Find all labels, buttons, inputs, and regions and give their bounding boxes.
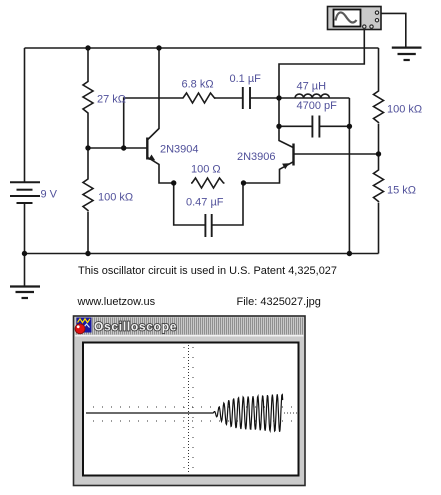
wire 6.8k to 0.1uF: [214, 97, 243, 99]
svg-text:27 kΩ: 27 kΩ: [97, 94, 126, 106]
svg-text:15 kΩ: 15 kΩ: [387, 185, 416, 197]
capacitor C 0.1uF: [242, 87, 244, 109]
wire inductor right: [330, 97, 350, 99]
resistor R 100ohm: [191, 178, 225, 188]
svg-text:2N3904: 2N3904: [160, 144, 199, 156]
oscilloscope window: [74, 316, 306, 486]
graticule vertical dotted: [184, 345, 193, 474]
svg-text:This oscillator circuit is use: This oscillator circuit is used in U.S. …: [78, 265, 337, 277]
svg-text:0.47 µF: 0.47 µF: [186, 197, 224, 209]
capacitor C 4700pF: [311, 116, 313, 138]
svg-text:2N3906: 2N3906: [237, 151, 276, 163]
wire node A to scope: [279, 29, 364, 99]
wire 27k top lead: [87, 48, 89, 81]
svg-text:100 kΩ: 100 kΩ: [98, 192, 133, 204]
wire base link 2N3904: [88, 147, 147, 149]
inductor L 47uH: [295, 97, 330, 99]
resistor R 100k right: [374, 90, 384, 124]
svg-text:9 V: 9 V: [41, 189, 58, 201]
wire 2N3906 emitter: [244, 162, 294, 183]
svg-text:File: 4325027.jpg: File: 4325027.jpg: [237, 296, 321, 308]
svg-text:6.8 kΩ: 6.8 kΩ: [182, 79, 214, 91]
resistor R 15k: [374, 169, 384, 203]
scope window icon: [75, 318, 92, 334]
svg-text:100 Ω: 100 Ω: [191, 164, 221, 176]
transistor Q2 2N3906: [282, 144, 293, 170]
svg-text:100 kΩ: 100 kΩ: [387, 104, 422, 116]
svg-text:www.luetzow.us: www.luetzow.us: [77, 296, 156, 308]
resistor R 100k left: [83, 178, 93, 212]
wire 2N3904 collector: [148, 48, 159, 140]
ground left: [10, 287, 40, 299]
wire scope probe to ground: [381, 13, 406, 47]
wire right rail bottom: [378, 203, 380, 254]
capacitor C 0.47uF: [204, 214, 206, 237]
ground top right: [392, 48, 422, 60]
graticule horizontal dotted: [93, 407, 297, 421]
wire bottom rail: [25, 253, 379, 255]
wire top rail: [25, 47, 379, 49]
wire 0.1uF to node A: [250, 97, 295, 99]
wire divider middle: [87, 114, 89, 178]
waveform trace: [86, 394, 283, 432]
svg-text:Oscilloscope: Oscilloscope: [94, 320, 177, 334]
value labels: [41, 73, 423, 209]
resistor R 27k: [83, 81, 93, 115]
wire 0.47uF branch: [174, 183, 206, 225]
wire battery top lead: [24, 48, 26, 182]
transistor Q1 2N3904: [147, 138, 155, 161]
wire 2N3906 collector: [279, 98, 293, 148]
wire right rail top: [378, 48, 380, 90]
wire emitter rail left: [148, 158, 174, 184]
wire 0.47uF right branch: [212, 183, 243, 225]
resistor R 6.8k: [182, 93, 216, 103]
svg-text:4700 pF: 4700 pF: [297, 100, 338, 112]
wire 4700pF left: [279, 125, 312, 127]
wire base riser: [124, 98, 182, 148]
wire battery bottom lead: [24, 203, 26, 287]
wire tank right vertical: [348, 98, 350, 254]
wire right rail middle: [378, 124, 380, 169]
wire 2N3906 base lead: [294, 153, 379, 155]
oscilloscope probe icon: [328, 7, 382, 30]
svg-text:47 µH: 47 µH: [297, 81, 327, 93]
wire 100k bottom lead: [87, 212, 89, 254]
scope screen: [83, 343, 299, 476]
svg-text:0.1 µF: 0.1 µF: [230, 73, 262, 85]
wire 4700pF right: [319, 125, 349, 127]
battery 9V: [10, 182, 40, 203]
caption text: [77, 265, 338, 308]
